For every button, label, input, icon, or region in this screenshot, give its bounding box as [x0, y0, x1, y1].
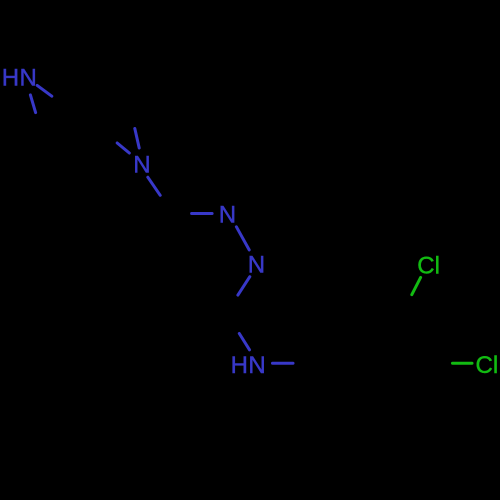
- svg-text:Cl: Cl: [417, 253, 440, 280]
- svg-text:N: N: [248, 251, 265, 278]
- bond NH to phenyl C1 (horizontal half-bond): [273, 362, 294, 365]
- bond C to N (upper-left half-bond): [117, 143, 129, 153]
- bond HN to C (upper-right half-bond): [37, 85, 52, 96]
- bond N1-N2 (full blue bond): [236, 227, 249, 250]
- bond N2 to C3 (lower-left half-bond): [238, 277, 250, 295]
- svg-text:Cl: Cl: [476, 352, 499, 379]
- bond phenyl C3 to Cl (half-bond): [412, 278, 421, 295]
- bond phenyl C4 to Cl (horizontal half-bond): [453, 362, 473, 365]
- bond C6 to N1 (horizontal half-bond): [192, 212, 213, 215]
- svg-text:HN: HN: [231, 352, 266, 379]
- bond C to N (top half-bond): [135, 129, 139, 149]
- svg-text:HN: HN: [2, 65, 37, 92]
- bond C3 to NH (half-bond near amine): [239, 334, 249, 350]
- bond HN to C (lower half-bond): [30, 95, 35, 113]
- svg-text:N: N: [133, 152, 150, 179]
- bond N to C6 (lower-right half-bond): [148, 177, 160, 195]
- svg-text:N: N: [219, 202, 236, 229]
